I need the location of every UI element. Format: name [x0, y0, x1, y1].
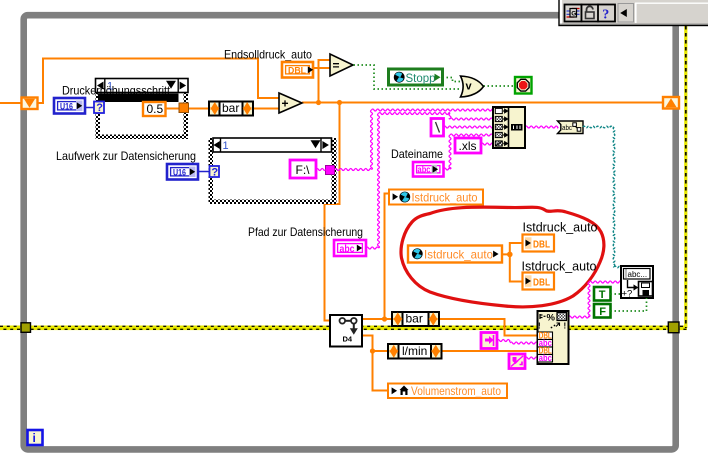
svg-text:abc: abc: [539, 353, 552, 364]
svg-text:?: ?: [211, 166, 218, 178]
label Druckerhoehungsschritt: [62, 84, 171, 98]
wire: node to format abc input 2: [525, 357, 538, 359]
local variable Istdruck_auto 1: [389, 190, 483, 205]
red annotation ellipse: [401, 207, 604, 307]
wire: OR gate to stop button: [484, 85, 516, 87]
error wire tunnel (right border): [668, 322, 679, 333]
svg-text:abc: abc: [340, 244, 355, 255]
svg-text:+?: +?: [622, 289, 633, 300]
svg-text:Istdruck_auto: Istdruck_auto: [424, 248, 493, 262]
tunnel (magenta) on structure 2: [326, 166, 335, 175]
abc string terminal Dateiname: [413, 162, 444, 177]
svg-text:Dateiname: Dateiname: [391, 147, 443, 161]
svg-text:T: T: [599, 289, 606, 301]
svg-text:Volumenstrom_auto: Volumenstrom_auto: [411, 384, 501, 398]
wire: branch down to Volumenstrom local: [373, 351, 389, 391]
error wire tunnel (left border): [21, 323, 31, 333]
svg-text:U16: U16: [173, 167, 186, 177]
wire: D4 to bar ring 2: [362, 318, 392, 320]
svg-text:Laufwerk zur Datensicherung: Laufwerk zur Datensicherung: [56, 149, 196, 163]
label Dateiname: [391, 147, 443, 161]
or node v: [461, 76, 484, 97]
svg-text:bar: bar: [222, 101, 239, 115]
svg-text:D4: D4: [343, 335, 353, 344]
junction on main wire (x=339): [337, 100, 342, 105]
svg-text:U16: U16: [60, 101, 73, 111]
svg-text:DBL: DBL: [533, 239, 550, 250]
svg-text:F: F: [599, 306, 606, 318]
svg-text:!: !: [564, 322, 567, 331]
error cluster wire (horizontal): [0, 326, 687, 331]
equals node =: [330, 54, 353, 76]
label Laufwerk zur Datensicherung: [56, 149, 196, 163]
concatenate strings node: [493, 107, 525, 148]
ring constant bar 2: [392, 312, 439, 327]
path constant F-drive: [290, 160, 316, 178]
U16 control terminal 1: [54, 98, 85, 114]
ring constant l/min: [388, 344, 442, 359]
svg-text:v: v: [466, 81, 473, 93]
DBL indicator terminal 2: [523, 273, 555, 290]
wire: .xls constant to concat input 5: [481, 143, 493, 145]
right shift register: [663, 97, 679, 109]
ring constant bar: [209, 101, 253, 116]
svg-text:?: ?: [96, 102, 103, 114]
junction at l/min wire: [370, 348, 375, 353]
wire: path to write-file node: [583, 126, 621, 268]
string constant .xls: [455, 138, 481, 153]
boolean constant F: [594, 304, 611, 318]
wire: T to write node: [611, 293, 622, 295]
toolbar button 3 (help): [598, 5, 615, 23]
wire: format output to write node: [569, 281, 622, 318]
svg-text:Stopp: Stopp: [406, 71, 436, 85]
svg-text:Istdruck_auto: Istdruck_auto: [522, 260, 597, 274]
D4 node: [330, 315, 362, 347]
DBL control terminal Endsolldruck_auto: [282, 62, 313, 78]
svg-text:Pfad zur Datensicherung: Pfad zur Datensicherung: [248, 225, 363, 239]
svg-text:%: %: [547, 313, 556, 324]
sequence-local ? box 1: [94, 102, 104, 115]
wire: concat output to string-to-path: [525, 126, 558, 128]
toolbar scrollbar track: [635, 3, 708, 24]
svg-text:1: 1: [223, 140, 229, 152]
svg-text:?: ?: [602, 7, 609, 22]
string constant backslash: [431, 119, 444, 137]
add node +: [279, 93, 302, 113]
wire: branch up to equals node: [319, 60, 331, 103]
svg-text:Druckerhöhungsschritt: Druckerhöhungsschritt: [62, 84, 171, 98]
left shift register: [22, 98, 38, 110]
wire: main numeric wire to right shift register: [302, 102, 663, 104]
junction on main wire (x=318): [316, 100, 321, 105]
stacked sequence structure 2 (frame+selector): [209, 138, 337, 204]
wire: local 2 to DBL indicators: [502, 243, 523, 282]
string-to-path conversion node: [558, 121, 584, 134]
stacked sequence structure 1 (frame+selector): [96, 79, 189, 140]
toolbar button 1 (diagram): [565, 5, 582, 22]
svg-text:F:\: F:\: [296, 163, 311, 177]
conversion node (l/min input): [509, 354, 525, 369]
svg-text:+: +: [282, 97, 289, 111]
format into string node: [538, 311, 569, 364]
wire: equals to OR gate: [354, 65, 462, 89]
wire: U16-2 to ? box: [198, 171, 210, 173]
wire: into left shift register: [0, 102, 22, 104]
wire: bar ring to add node: [253, 108, 279, 110]
wire: D4 to l/min ring: [362, 336, 388, 352]
wire: U16-1 to ? box: [85, 107, 94, 109]
wire: node to format abc input 1: [497, 340, 538, 345]
svg-text:.xls: .xls: [459, 139, 477, 153]
svg-text:abc: abc: [418, 164, 431, 175]
svg-text:abc: abc: [562, 125, 572, 132]
wire: F to write node: [611, 298, 647, 311]
label Istdruck_auto (bottom indicator): [522, 260, 597, 274]
svg-text:Istdruck_auto: Istdruck_auto: [412, 191, 478, 205]
iteration terminal i: [28, 430, 43, 445]
junction at D4/bar wire: [382, 316, 387, 321]
svg-text:DBL: DBL: [288, 66, 306, 77]
svg-text:i: i: [33, 431, 36, 445]
string-to-path node 2 (bar input): [481, 333, 497, 349]
svg-text:abc...: abc...: [628, 270, 648, 279]
local variable Volumenstrom_auto: [388, 384, 507, 399]
text Volumenstrom_auto: [411, 384, 501, 398]
svg-text:Endsolldruck_auto: Endsolldruck_auto: [224, 48, 312, 62]
numeric constant 0.5: [143, 102, 166, 116]
wire: l/min ring to format node DBL input 2: [442, 350, 538, 352]
wire: Stopp to OR gate: [443, 78, 462, 82]
wire: backslash constant to concat input 3: [444, 126, 494, 128]
wire: shift register to add node (top route): [38, 59, 280, 104]
wire: drive string to concat input 1: [335, 109, 494, 171]
wire: 0.5 constant to tunnel: [166, 108, 180, 110]
slider bar (black) inside structure 1: [98, 94, 179, 103]
write characters to file node: [621, 266, 653, 300]
stop button terminal: [515, 77, 532, 94]
toolbar button 2 (lock): [582, 5, 599, 22]
tunnel (orange) on structure 1: [179, 103, 189, 113]
svg-text:Istdruck_auto: Istdruck_auto: [523, 221, 598, 235]
svg-text:=: =: [333, 59, 340, 73]
DBL indicator terminal 1: [523, 235, 555, 252]
wire: bar ring 2 to format node DBL input: [439, 319, 538, 336]
boolean constant T: [594, 287, 611, 301]
svg-text:!: !: [538, 322, 541, 331]
svg-text:l/min: l/min: [402, 344, 427, 358]
error cluster wire (vertical, right edge): [684, 26, 687, 328]
label Istdruck_auto (top indicator): [523, 221, 598, 235]
U16 control terminal 2: [167, 164, 198, 180]
wire: tunnel to bar ring: [188, 108, 209, 110]
toolbar scroll arrow: [618, 4, 634, 23]
sequence-local ? box 2: [210, 166, 220, 178]
svg-text:G: G: [571, 10, 576, 17]
abc string terminal Pfad zur Datensicherung: [334, 240, 366, 256]
label Pfad zur Datensicherung: [248, 225, 363, 239]
wire: branch up to Istdruck local 1: [385, 194, 390, 320]
wire: F-drive constant to tunnel: [316, 169, 326, 171]
svg-text:bar: bar: [406, 312, 423, 326]
local variable Istdruck_auto 2: [408, 246, 502, 263]
toolbar window: [559, 0, 708, 26]
svg-text:0.5: 0.5: [147, 102, 164, 116]
wire: DBL terminal to equals node: [313, 67, 330, 69]
svg-text:DBL: DBL: [533, 277, 550, 288]
Stopp boolean terminal: [389, 69, 443, 85]
label Endsolldruck_auto: [224, 48, 312, 62]
wire: Dateiname to concat input 4: [444, 134, 494, 170]
wire: branch down to D4 node: [325, 103, 340, 321]
wire: Pfad string to concat input 2: [366, 113, 493, 250]
